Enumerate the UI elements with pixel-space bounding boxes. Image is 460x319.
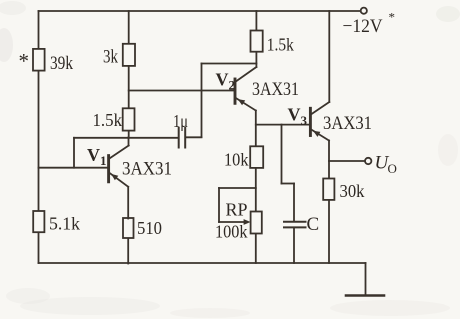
wire RP wiper arrow lead <box>219 221 244 223</box>
wire RP wiper top horizontal <box>219 187 256 189</box>
svg-text:1.5k: 1.5k <box>93 110 123 130</box>
wire top -12V rail <box>39 10 362 12</box>
resistor 510 <box>123 218 134 238</box>
ground <box>346 294 384 297</box>
wire C branch jog <box>282 183 295 185</box>
svg-text:−12V: −12V <box>343 16 383 37</box>
wire V1 collector node horizontal <box>74 137 178 139</box>
wire bottom rail <box>39 262 366 264</box>
wire C top lead <box>293 184 295 222</box>
svg-text:30k: 30k <box>340 181 365 201</box>
wire RP wiper vertical <box>218 188 220 222</box>
potentiometer RP body <box>251 212 262 234</box>
wire left vertical branch <box>38 11 40 263</box>
svg-text:3k: 3k <box>103 47 118 68</box>
wire C bottom lead <box>293 228 295 263</box>
resistor 1.5k upper right <box>251 31 263 52</box>
svg-text:1.5k: 1.5k <box>267 35 294 55</box>
svg-text:1μ: 1μ <box>173 111 188 131</box>
wire 510 to bottom rail <box>127 238 129 264</box>
wire bootstrap horizontal to V2 collector <box>202 63 257 65</box>
svg-text:*: * <box>19 49 30 73</box>
svg-text:V3: V3 <box>288 105 308 129</box>
svg-text:C: C <box>307 214 320 235</box>
wire feedback drop to V1 base <box>73 138 75 168</box>
svg-text:39k: 39k <box>50 53 73 74</box>
resistor 10k <box>250 146 263 168</box>
wire V3 collector vertical <box>328 11 330 102</box>
svg-text:100k: 100k <box>215 222 248 242</box>
svg-text:*: * <box>389 10 396 25</box>
svg-text:3AX31: 3AX31 <box>252 79 299 100</box>
transistor V3 <box>309 108 312 135</box>
wire V2 base from 3k/1.5k junction <box>129 90 235 92</box>
resistor 1.5k left <box>123 108 135 130</box>
wire V2 emitter vertical to 10k/RP <box>255 111 257 264</box>
svg-text:RP: RP <box>226 200 248 220</box>
svg-text:3AX31: 3AX31 <box>323 113 372 134</box>
resistor 3k <box>123 44 135 66</box>
resistor 39k <box>33 49 45 71</box>
wire 1u cap right lead <box>186 136 202 138</box>
capacitor 1u plates <box>178 128 180 148</box>
svg-text:O: O <box>388 161 397 176</box>
wire output horizontal <box>329 160 365 162</box>
capacitor C plates <box>284 221 306 223</box>
transistor V2 <box>234 79 237 103</box>
svg-text:510: 510 <box>137 218 162 238</box>
terminal UO <box>365 158 371 164</box>
transistor V1 <box>107 156 110 182</box>
resistor 30k <box>323 179 334 200</box>
potentiometer RP wiper arrow <box>244 219 251 225</box>
resistor 5.1k <box>33 211 44 232</box>
svg-text:V2: V2 <box>216 70 236 93</box>
wire 1.5k collector branch vertical <box>255 11 257 67</box>
wire 3k branch vertical <box>128 11 130 138</box>
wire V3 emitter vertical through 30k <box>328 141 330 264</box>
svg-text:10k: 10k <box>224 150 249 170</box>
wire bootstrap vertical <box>201 64 203 138</box>
wire V3 base horizontal <box>256 124 310 126</box>
svg-text:V1: V1 <box>87 145 107 168</box>
wire C branch upper vertical <box>281 125 283 184</box>
terminal -12V <box>361 8 367 14</box>
svg-text:5.1k: 5.1k <box>49 214 80 234</box>
wire V1 base horizontal <box>39 167 109 169</box>
svg-text:3AX31: 3AX31 <box>122 158 172 179</box>
wire ground drop <box>365 263 367 295</box>
